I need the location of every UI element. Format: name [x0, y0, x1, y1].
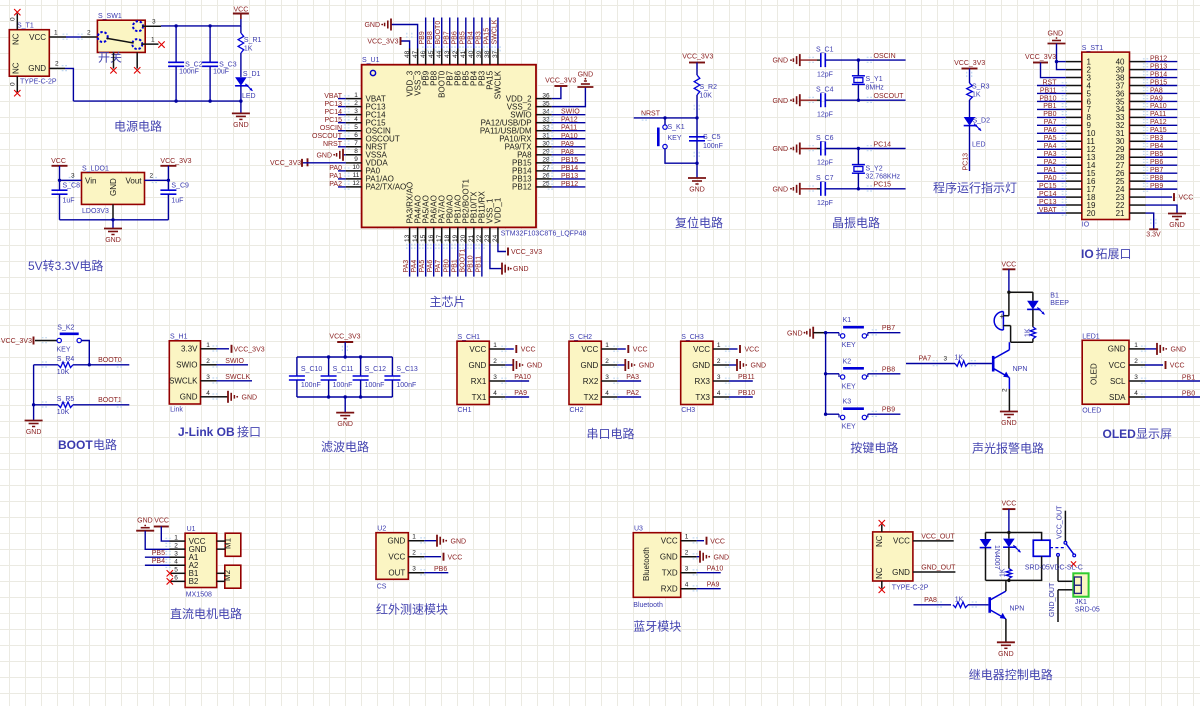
svg-text:GND: GND — [772, 146, 788, 153]
svg-text:GND_OUT: GND_OUT — [1049, 582, 1056, 617]
svg-text:100nF: 100nF — [333, 382, 353, 389]
svg-text:GND: GND — [772, 186, 788, 193]
svg-text:PC14: PC14 — [324, 109, 342, 116]
svg-text:NC: NC — [12, 62, 21, 74]
svg-text:VCC_3V3: VCC_3V3 — [1025, 54, 1056, 61]
svg-text:100nF: 100nF — [179, 69, 199, 76]
svg-text:PA4: PA4 — [411, 260, 418, 273]
svg-text:21: 21 — [1116, 209, 1125, 218]
svg-text:GND: GND — [337, 421, 353, 428]
svg-text:显示屏: 显示屏 — [1136, 427, 1172, 441]
svg-text:Link: Link — [170, 407, 183, 414]
svg-text:TX2: TX2 — [584, 393, 599, 402]
svg-text:GND: GND — [527, 363, 543, 370]
svg-text:SDA: SDA — [1109, 393, 1126, 402]
svg-text:PA15: PA15 — [483, 28, 490, 45]
svg-text:VCC_3V3: VCC_3V3 — [270, 160, 301, 167]
svg-text:1K: 1K — [1025, 328, 1032, 337]
svg-text:红外测速模块: 红外测速模块 — [376, 602, 448, 617]
svg-text:PA8: PA8 — [1150, 87, 1163, 94]
svg-text:OSCOUT: OSCOUT — [874, 93, 905, 100]
svg-text:K2: K2 — [843, 358, 852, 365]
svg-text:VCC_3V3: VCC_3V3 — [545, 78, 576, 85]
svg-text:13: 13 — [404, 234, 411, 242]
svg-text:SRD-05VDC-SL-C: SRD-05VDC-SL-C — [1025, 565, 1083, 572]
svg-text:3: 3 — [412, 566, 416, 573]
svg-text:15: 15 — [420, 234, 427, 242]
svg-text:36: 36 — [542, 92, 550, 99]
svg-text:M1: M1 — [224, 537, 233, 549]
svg-text:PC13: PC13 — [1039, 199, 1057, 206]
svg-text:J-Link OB: J-Link OB — [178, 425, 235, 439]
svg-text:2: 2 — [605, 358, 609, 365]
svg-text:VCC: VCC — [154, 518, 169, 525]
svg-text:PB0: PB0 — [1043, 111, 1056, 118]
svg-text:39: 39 — [476, 50, 483, 58]
svg-text:BEEP: BEEP — [1050, 300, 1069, 307]
svg-text:RX2: RX2 — [583, 377, 599, 386]
svg-text:PA11: PA11 — [561, 125, 577, 132]
svg-text:2: 2 — [412, 550, 416, 557]
svg-text:S_C8: S_C8 — [63, 183, 81, 190]
svg-text:46: 46 — [420, 50, 427, 58]
svg-text:NC: NC — [12, 33, 21, 45]
svg-text:PC14: PC14 — [1039, 191, 1057, 198]
svg-text:PB8: PB8 — [1150, 175, 1163, 182]
svg-text:K1: K1 — [843, 317, 852, 324]
svg-text:2: 2 — [87, 30, 91, 37]
svg-text:S_C5: S_C5 — [703, 134, 721, 141]
svg-text:12: 12 — [352, 180, 360, 187]
svg-text:37: 37 — [492, 50, 499, 58]
svg-text:2: 2 — [1134, 358, 1138, 365]
svg-text:TYPE-C-2P: TYPE-C-2P — [20, 79, 57, 86]
svg-text:CH2: CH2 — [570, 407, 584, 414]
svg-text:PB12: PB12 — [1150, 55, 1167, 62]
svg-text:PA12: PA12 — [1150, 119, 1167, 126]
svg-text:CS: CS — [377, 584, 387, 591]
svg-text:1uF: 1uF — [63, 198, 75, 205]
svg-text:电路: 电路 — [93, 437, 117, 452]
svg-text:3: 3 — [152, 19, 156, 26]
svg-text:NPN: NPN — [1013, 366, 1028, 373]
svg-text:VCC: VCC — [51, 158, 66, 165]
svg-text:PB0: PB0 — [1182, 391, 1195, 398]
svg-text:K3: K3 — [843, 399, 852, 406]
svg-text:12pF: 12pF — [817, 111, 833, 118]
svg-text:GND: GND — [180, 393, 198, 402]
svg-text:OLED: OLED — [1082, 408, 1101, 415]
svg-text:GND: GND — [451, 538, 467, 545]
svg-text:41: 41 — [460, 50, 467, 58]
svg-text:PA2: PA2 — [329, 181, 342, 188]
svg-text:PB7: PB7 — [443, 31, 450, 44]
svg-text:GND: GND — [316, 152, 332, 159]
svg-text:10K: 10K — [57, 409, 70, 416]
svg-text:直流电机电路: 直流电机电路 — [170, 606, 242, 621]
svg-text:TYPE-C-2P: TYPE-C-2P — [892, 585, 929, 592]
svg-text:PA0: PA0 — [1044, 175, 1057, 182]
svg-text:2: 2 — [493, 358, 497, 365]
svg-text:RX3: RX3 — [694, 377, 710, 386]
svg-text:PA10: PA10 — [561, 133, 578, 140]
svg-text:1: 1 — [54, 30, 58, 37]
svg-text:CH1: CH1 — [458, 407, 472, 414]
svg-text:LED1: LED1 — [1082, 333, 1100, 340]
svg-text:GND: GND — [578, 72, 594, 79]
svg-text:PA9: PA9 — [1150, 95, 1163, 102]
svg-text:PA12: PA12 — [561, 117, 578, 124]
svg-text:VCC_OUT: VCC_OUT — [1057, 505, 1064, 539]
svg-text:VCC_3V3: VCC_3V3 — [367, 39, 398, 46]
svg-text:VBAT: VBAT — [1039, 207, 1057, 214]
svg-text:GND: GND — [689, 187, 705, 194]
svg-text:VCC: VCC — [1179, 195, 1194, 202]
svg-text:VCC_3V3: VCC_3V3 — [329, 333, 360, 340]
svg-text:38: 38 — [484, 50, 491, 58]
svg-text:VCC: VCC — [521, 347, 536, 354]
svg-text:SWIO: SWIO — [561, 109, 580, 116]
svg-text:PB8: PB8 — [882, 366, 895, 373]
svg-text:3: 3 — [354, 108, 358, 115]
svg-text:VCC: VCC — [893, 537, 910, 546]
svg-text:S_C11: S_C11 — [333, 366, 354, 373]
svg-text:100nF: 100nF — [703, 143, 723, 150]
svg-text:PA1: PA1 — [329, 173, 342, 180]
svg-text:RST: RST — [1043, 79, 1058, 86]
svg-text:14: 14 — [412, 234, 419, 242]
svg-text:PA3: PA3 — [1044, 151, 1057, 158]
svg-text:PA3: PA3 — [626, 374, 639, 381]
svg-text:1: 1 — [717, 342, 721, 349]
svg-text:S_C2: S_C2 — [185, 61, 203, 68]
svg-text:PB6: PB6 — [1150, 159, 1163, 166]
svg-text:0: 0 — [10, 82, 17, 86]
svg-text:GND: GND — [892, 568, 910, 577]
svg-text:PC13: PC13 — [963, 153, 970, 171]
svg-text:BOOT1: BOOT1 — [459, 249, 466, 273]
svg-text:3.3V: 3.3V — [181, 345, 198, 354]
svg-text:1K: 1K — [955, 597, 964, 604]
svg-text:1: 1 — [685, 534, 689, 541]
svg-text:TXD: TXD — [662, 569, 678, 578]
svg-text:KEY: KEY — [668, 135, 682, 142]
svg-text:GND: GND — [1048, 31, 1064, 38]
svg-text:OSCOUT: OSCOUT — [312, 133, 343, 140]
svg-text:PB9: PB9 — [1150, 183, 1163, 190]
svg-text:5: 5 — [174, 567, 178, 574]
svg-text:GND_OUT: GND_OUT — [921, 565, 956, 572]
svg-text:1: 1 — [206, 342, 210, 349]
svg-text:BOOT1: BOOT1 — [98, 397, 122, 404]
svg-text:SWIO: SWIO — [225, 358, 244, 365]
svg-text:S_Y2: S_Y2 — [866, 166, 883, 173]
svg-text:3: 3 — [685, 566, 689, 573]
svg-text:PA2/TX/AO: PA2/TX/AO — [366, 183, 407, 192]
svg-text:4: 4 — [206, 390, 210, 397]
svg-text:4: 4 — [685, 582, 689, 589]
svg-text:PA8: PA8 — [924, 597, 937, 604]
svg-text:12pF: 12pF — [817, 200, 833, 207]
svg-text:GND: GND — [105, 237, 121, 244]
svg-text:45: 45 — [428, 50, 435, 58]
svg-text:40: 40 — [468, 50, 475, 58]
svg-text:Bluetooth: Bluetooth — [633, 602, 663, 609]
svg-text:4: 4 — [493, 390, 497, 397]
svg-text:NRST: NRST — [323, 141, 343, 148]
svg-text:2: 2 — [685, 550, 689, 557]
svg-text:PC15: PC15 — [324, 117, 342, 124]
svg-text:S_C9: S_C9 — [171, 183, 189, 190]
svg-text:PB10: PB10 — [1039, 95, 1056, 102]
svg-text:11: 11 — [353, 172, 360, 179]
svg-text:47: 47 — [412, 50, 419, 58]
svg-text:1K: 1K — [955, 355, 964, 362]
svg-text:开关: 开关 — [98, 51, 122, 65]
svg-text:串口电路: 串口电路 — [587, 426, 635, 441]
svg-text:100nF: 100nF — [396, 382, 416, 389]
svg-text:继电器控制电路: 继电器控制电路 — [969, 667, 1053, 682]
svg-text:23: 23 — [484, 234, 491, 242]
svg-text:RXD: RXD — [661, 585, 678, 594]
svg-text:VCC_OUT: VCC_OUT — [921, 533, 955, 540]
svg-text:LDO3V3: LDO3V3 — [82, 208, 109, 215]
svg-text:1: 1 — [1134, 342, 1138, 349]
svg-text:声光报警电路: 声光报警电路 — [972, 441, 1044, 456]
svg-text:S_Y1: S_Y1 — [866, 76, 883, 83]
svg-text:KEY: KEY — [842, 342, 856, 349]
svg-text:LED: LED — [242, 93, 256, 100]
svg-text:PB9: PB9 — [882, 407, 895, 414]
svg-text:PA7: PA7 — [1044, 119, 1057, 126]
svg-text:4: 4 — [354, 116, 358, 123]
svg-text:1K: 1K — [972, 92, 981, 99]
svg-text:1: 1 — [605, 342, 609, 349]
svg-text:蓝牙模块: 蓝牙模块 — [633, 620, 681, 634]
svg-text:0: 0 — [10, 17, 17, 21]
svg-text:S_C6: S_C6 — [816, 135, 834, 142]
svg-text:拓展口: 拓展口 — [1096, 247, 1132, 261]
svg-text:S_C7: S_C7 — [816, 175, 834, 182]
svg-text:GND: GND — [714, 554, 730, 561]
svg-text:PA9: PA9 — [707, 581, 720, 588]
svg-text:IO: IO — [1081, 247, 1094, 261]
svg-text:S_CH2: S_CH2 — [570, 334, 593, 341]
svg-text:2: 2 — [206, 358, 210, 365]
svg-text:+: + — [1000, 312, 1005, 321]
svg-text:GND: GND — [772, 98, 788, 105]
svg-text:8MHz: 8MHz — [866, 85, 885, 92]
svg-text:S_D1: S_D1 — [243, 71, 261, 78]
svg-text:PA8: PA8 — [561, 149, 574, 156]
svg-text:按键电路: 按键电路 — [850, 440, 898, 455]
svg-text:PB6: PB6 — [451, 31, 458, 44]
svg-text:PB15: PB15 — [561, 157, 578, 164]
svg-text:GND: GND — [581, 361, 599, 370]
svg-text:GND: GND — [1169, 222, 1185, 229]
svg-text:PA9: PA9 — [561, 141, 574, 148]
svg-text:PA1: PA1 — [1044, 167, 1057, 174]
svg-text:Vin: Vin — [85, 176, 96, 185]
svg-text:VCC: VCC — [234, 6, 249, 13]
svg-text:SWCLK: SWCLK — [491, 19, 498, 44]
svg-text:43: 43 — [444, 50, 451, 58]
svg-text:S_LDO1: S_LDO1 — [82, 166, 109, 173]
svg-text:SCL: SCL — [1110, 377, 1126, 386]
svg-text:PA3: PA3 — [403, 260, 410, 273]
svg-text:PA10: PA10 — [514, 374, 531, 381]
svg-text:16: 16 — [428, 234, 435, 242]
svg-text:VCC: VCC — [1170, 362, 1185, 369]
svg-text:STM32F103C8T6_LQFP48: STM32F103C8T6_LQFP48 — [501, 231, 587, 238]
svg-text:PA10: PA10 — [1150, 103, 1167, 110]
svg-text:PB5: PB5 — [152, 550, 165, 557]
svg-text:12pF: 12pF — [817, 71, 833, 78]
svg-text:VCC_3V3: VCC_3V3 — [682, 54, 713, 61]
svg-text:GND: GND — [388, 537, 406, 546]
svg-text:VBAT: VBAT — [324, 93, 342, 100]
svg-text:VCC: VCC — [448, 554, 463, 561]
svg-text:S_R1: S_R1 — [244, 37, 262, 44]
svg-text:U2: U2 — [377, 526, 386, 533]
svg-text:VCC: VCC — [693, 345, 710, 354]
svg-text:OSCIN: OSCIN — [320, 125, 342, 132]
svg-text:S_D2: S_D2 — [973, 118, 991, 125]
svg-text:1K: 1K — [1000, 568, 1007, 577]
svg-text:1: 1 — [174, 534, 178, 541]
svg-text:SWCLK: SWCLK — [494, 70, 503, 99]
svg-text:VDD_1: VDD_1 — [494, 197, 503, 223]
svg-text:S_R2: S_R2 — [700, 84, 718, 91]
svg-text:GND: GND — [109, 178, 118, 196]
svg-text:4: 4 — [174, 558, 178, 565]
svg-text:S_C4: S_C4 — [816, 87, 834, 94]
svg-text:NPN: NPN — [1010, 606, 1025, 613]
svg-text:PB13: PB13 — [561, 173, 578, 180]
svg-text:GND: GND — [787, 331, 803, 338]
svg-text:1K: 1K — [244, 46, 253, 53]
svg-text:MX1508: MX1508 — [186, 592, 212, 599]
svg-text:GND: GND — [233, 122, 249, 129]
svg-text:IO: IO — [1082, 222, 1090, 229]
svg-text:PA11: PA11 — [1150, 111, 1166, 118]
svg-text:S_ST1: S_ST1 — [1082, 45, 1104, 52]
svg-text:PB10: PB10 — [467, 255, 474, 272]
svg-text:PB9: PB9 — [419, 31, 426, 44]
svg-text:GND: GND — [242, 394, 258, 401]
svg-text:PC13: PC13 — [324, 101, 342, 108]
svg-text:VCC: VCC — [469, 345, 486, 354]
svg-text:2: 2 — [174, 542, 178, 549]
svg-text:3: 3 — [1134, 374, 1138, 381]
svg-text:PB11: PB11 — [1040, 87, 1057, 94]
svg-text:5V转3.3V电路: 5V转3.3V电路 — [28, 258, 103, 273]
svg-text:S_U1: S_U1 — [362, 57, 380, 64]
svg-text:GND: GND — [998, 651, 1014, 658]
svg-text:TX3: TX3 — [695, 393, 710, 402]
svg-text:GND: GND — [28, 64, 46, 73]
svg-text:PB1: PB1 — [1182, 375, 1195, 382]
svg-text:PC15: PC15 — [1039, 183, 1057, 190]
svg-text:VCC: VCC — [1001, 262, 1016, 269]
svg-text:PB1: PB1 — [1043, 103, 1056, 110]
svg-text:VCC_3V3: VCC_3V3 — [1, 338, 32, 345]
svg-text:PA7: PA7 — [918, 356, 931, 363]
svg-text:100nF: 100nF — [365, 382, 385, 389]
svg-text:4: 4 — [1134, 390, 1138, 397]
svg-text:SRD-05: SRD-05 — [1075, 607, 1100, 614]
svg-text:SWCLK: SWCLK — [169, 377, 198, 386]
svg-text:GND: GND — [639, 363, 655, 370]
svg-text:10uF: 10uF — [213, 69, 229, 76]
svg-text:PB12: PB12 — [512, 183, 532, 192]
svg-text:3: 3 — [206, 374, 210, 381]
svg-text:BOOT0: BOOT0 — [435, 21, 442, 45]
svg-text:PB0: PB0 — [443, 259, 450, 272]
svg-text:PA15: PA15 — [1150, 127, 1167, 134]
svg-text:PB14: PB14 — [561, 165, 578, 172]
svg-text:S_R5: S_R5 — [57, 396, 75, 403]
svg-text:B2: B2 — [189, 577, 199, 586]
svg-text:3: 3 — [174, 550, 178, 557]
svg-text:GND: GND — [137, 518, 153, 525]
svg-text:KEY: KEY — [842, 383, 856, 390]
svg-text:2: 2 — [150, 173, 154, 180]
svg-text:SWCLK: SWCLK — [225, 374, 250, 381]
svg-text:VCC: VCC — [710, 538, 725, 545]
svg-text:S_K2: S_K2 — [57, 325, 74, 332]
svg-text:GND: GND — [692, 361, 710, 370]
svg-text:1: 1 — [493, 342, 497, 349]
svg-text:VCC: VCC — [633, 347, 648, 354]
svg-text:VCC_3V3: VCC_3V3 — [160, 158, 191, 165]
svg-text:GND: GND — [26, 429, 42, 436]
svg-text:2: 2 — [354, 100, 358, 107]
svg-text:S_C13: S_C13 — [396, 366, 418, 373]
svg-text:KEY: KEY — [842, 424, 856, 431]
svg-text:S_T1: S_T1 — [17, 23, 34, 30]
svg-text:GND: GND — [751, 363, 767, 370]
svg-text:S_C10: S_C10 — [301, 366, 323, 373]
svg-text:GND: GND — [772, 58, 788, 65]
svg-text:PB7: PB7 — [882, 325, 895, 332]
svg-text:4: 4 — [605, 390, 609, 397]
svg-text:3.3V: 3.3V — [1146, 232, 1161, 239]
svg-text:1: 1 — [412, 534, 416, 541]
svg-text:6: 6 — [174, 575, 178, 582]
svg-text:10K: 10K — [700, 93, 713, 100]
svg-text:PB12: PB12 — [561, 181, 578, 188]
svg-text:VCC: VCC — [1002, 501, 1017, 508]
svg-text:PB6: PB6 — [434, 566, 447, 573]
svg-text:滤波电路: 滤波电路 — [321, 439, 369, 454]
svg-text:PA0: PA0 — [329, 165, 342, 172]
svg-text:PB4: PB4 — [1150, 143, 1163, 150]
svg-text:PA5: PA5 — [1044, 135, 1057, 142]
svg-text:PB11: PB11 — [738, 374, 755, 381]
svg-text:SWIO: SWIO — [176, 361, 197, 370]
svg-text:PC14: PC14 — [874, 141, 892, 148]
svg-text:OSCIN: OSCIN — [874, 53, 896, 60]
svg-text:20: 20 — [460, 234, 467, 242]
svg-text:PA5: PA5 — [419, 260, 426, 273]
svg-text:Vout: Vout — [125, 176, 142, 185]
svg-text:U3: U3 — [634, 526, 643, 533]
svg-text:PB15: PB15 — [1150, 79, 1167, 86]
svg-text:PB3: PB3 — [1150, 135, 1163, 142]
svg-text:PA10: PA10 — [707, 565, 724, 572]
svg-text:OLED: OLED — [1103, 427, 1137, 441]
